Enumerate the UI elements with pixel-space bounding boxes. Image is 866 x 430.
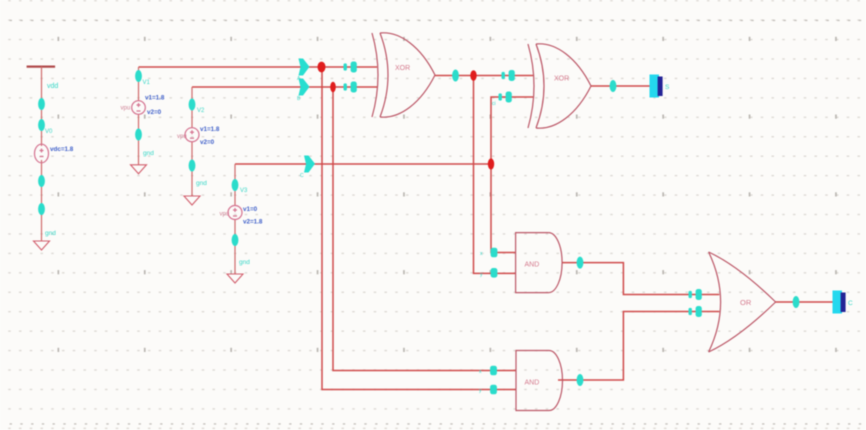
pin V2 b — [189, 160, 196, 172]
junction net A — [318, 62, 326, 73]
wire V0 top — [41, 67, 43, 146]
pin V3 b — [232, 234, 239, 246]
svg-text:gnd: gnd — [239, 259, 250, 266]
svg-text:v2=1.8: v2=1.8 — [243, 219, 263, 226]
wire V3 bottom — [234, 220, 236, 275]
pin V0 d — [38, 203, 45, 215]
svg-text:OR: OR — [740, 298, 752, 307]
wire net C vertical to AND1 input — [491, 164, 516, 253]
pin pair OR in2 — [689, 306, 702, 317]
input pin arrow B — [299, 79, 310, 96]
svg-text:C: C — [848, 300, 853, 307]
wire net C horizontal — [235, 163, 491, 165]
wire XOR2 output to pin S — [591, 85, 650, 87]
svg-text:XOR: XOR — [554, 76, 569, 83]
output pin C block — [833, 291, 846, 314]
vpulse source V3 — [228, 206, 242, 220]
svg-text:v1=1.8: v1=1.8 — [145, 95, 165, 102]
wire AND2 output to OR input — [558, 312, 719, 381]
pin AND2 in2 — [490, 385, 497, 395]
svg-text:V3: V3 — [240, 188, 248, 194]
pin pair OR in1 — [689, 289, 702, 300]
wire XOR1 output to XOR2 input — [435, 75, 533, 77]
pin XOR2 out — [610, 80, 617, 92]
input pin arrow A — [299, 59, 310, 76]
pin V3 a — [232, 179, 239, 191]
svg-text:v2=0: v2=0 — [147, 109, 162, 116]
ground V3 — [227, 274, 243, 283]
wire net A vertical tap to AND2 — [322, 67, 516, 390]
wire V0 bottom — [41, 160, 43, 241]
major grid marks — [58, 37, 837, 352]
svg-text:vpu: vpu — [121, 106, 131, 112]
svg-text:ci: ci — [492, 101, 496, 107]
svg-text:V0: V0 — [45, 129, 53, 135]
junction XOR1 out — [470, 70, 476, 81]
wire XOR1 output tap to AND1 input — [474, 76, 516, 274]
ground V1 — [131, 165, 147, 174]
wire net B vertical tap to AND2 — [333, 87, 516, 371]
wire V2 top — [191, 87, 193, 128]
pin AND1 in1 — [491, 248, 498, 258]
pin XOR1 out — [452, 70, 459, 82]
svg-text:gnd: gnd — [196, 180, 207, 187]
pin V0 c — [38, 175, 45, 187]
wire V1 bottom — [138, 115, 140, 166]
vpulse source V1 — [132, 101, 146, 115]
svg-text:v1=0: v1=0 — [243, 206, 258, 213]
wire AND1 output to OR input — [562, 263, 720, 295]
wire V1 top — [138, 67, 140, 101]
svg-text:vdd: vdd — [47, 83, 58, 90]
wire OR output to pin C — [776, 301, 834, 303]
svg-text:S: S — [665, 84, 670, 91]
output pin S block — [650, 75, 663, 98]
pin pair XOR1 in2 — [344, 82, 357, 93]
vdd symbol — [27, 65, 55, 67]
input pin arrow C — [304, 156, 315, 173]
svg-text:C: C — [300, 173, 304, 179]
pin V0 b — [38, 119, 45, 131]
pin OR out — [793, 296, 800, 308]
ground V0 — [34, 241, 50, 250]
svg-text:XOR: XOR — [395, 65, 410, 72]
pin AND2 out — [577, 374, 584, 386]
svg-text:v1=1.8: v1=1.8 — [200, 126, 220, 133]
pin pair XOR2 in2 — [499, 92, 512, 103]
wire V3 top — [234, 164, 236, 206]
wire net B horizontal — [192, 86, 377, 88]
svg-text:V2: V2 — [197, 108, 205, 114]
pin pair XOR1 in1 — [344, 62, 357, 73]
pin V0 a — [38, 98, 45, 110]
wire net C vertical to XOR2 input — [491, 97, 533, 164]
wire V2 bottom — [191, 142, 193, 196]
svg-text:AND: AND — [525, 380, 540, 387]
junction net C mid — [488, 158, 494, 169]
ground V2 — [184, 196, 200, 205]
pin AND1 out — [577, 257, 584, 269]
pin V1 b — [135, 129, 142, 141]
svg-text:V1: V1 — [143, 80, 151, 86]
pin AND2 in1 — [490, 366, 497, 376]
vdc source V0 — [35, 144, 49, 163]
svg-text:gnd: gnd — [45, 230, 56, 237]
svg-text:AND: AND — [525, 262, 540, 269]
junction net B — [330, 82, 336, 93]
svg-text:v2=0: v2=0 — [200, 139, 215, 146]
pin V2 a — [189, 99, 196, 111]
pin V1 a — [135, 70, 142, 82]
svg-text:vdc=1.8: vdc=1.8 — [50, 146, 74, 153]
vpulse source V2 — [185, 128, 199, 142]
wire net A horizontal — [139, 66, 378, 68]
pin pair XOR2 in1 — [502, 70, 515, 81]
svg-text:gnd: gnd — [143, 150, 154, 157]
pin AND1 in2 — [491, 268, 498, 278]
